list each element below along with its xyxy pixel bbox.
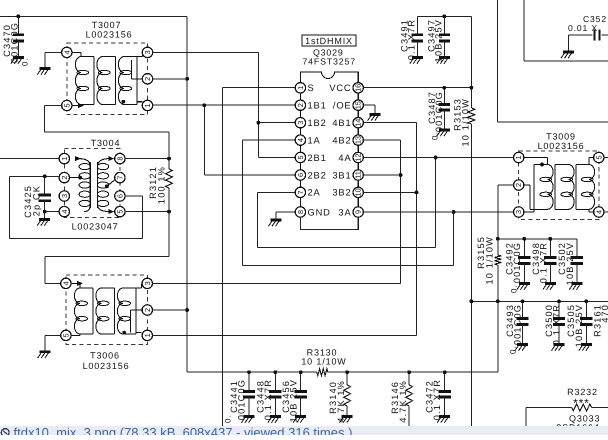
caption link text (1, 425, 352, 440)
wire 3A to T3009 pin3 (363, 211, 514, 213)
svg-text:12: 12 (354, 153, 363, 161)
T3006 pin 4 (61, 278, 71, 288)
svg-text:3: 3 (296, 121, 305, 125)
svg-text:T3004: T3004 (91, 138, 121, 148)
junction dot C3505 (584, 299, 588, 303)
svg-text:3: 3 (143, 50, 152, 54)
junction dot C3472 (443, 370, 447, 374)
T3006 pin 2 (142, 305, 152, 315)
IC Q3029 pin 2 (1B1) (295, 100, 326, 111)
wire C3492 row (498, 238, 577, 240)
svg-text:3A: 3A (338, 207, 351, 217)
ground for T3006 pin5 (38, 352, 51, 358)
label C3492 (505, 242, 523, 293)
wire C3425 bottom to pin4 (45, 211, 60, 213)
svg-text:4A: 4A (338, 153, 351, 163)
T3006 pin4 arrow (77, 281, 83, 286)
svg-text:2p CK: 2p CK (31, 185, 41, 216)
ground for C3492 (517, 284, 530, 290)
junction dot C3448 (274, 370, 278, 374)
T3009 winding 2 (555, 165, 574, 210)
resistor R3155 (494, 255, 501, 265)
IC bottom outline (300, 217, 358, 230)
svg-text:11: 11 (354, 171, 363, 179)
svg-text:4: 4 (62, 50, 71, 54)
T3004 winding right (97, 162, 108, 208)
wire IC pin8 GND (276, 212, 296, 220)
svg-text:0.: 0. (224, 414, 233, 423)
wire 2B2 branch (204, 105, 295, 175)
wire bottom bypass rail y=372 (187, 371, 498, 373)
svg-text:6: 6 (296, 173, 305, 177)
T3004 pin 1 (59, 153, 69, 163)
resistor R3140 (344, 372, 351, 416)
svg-text:5: 5 (115, 210, 124, 214)
svg-text:0.: 0. (510, 284, 519, 293)
T3004 winding left (79, 162, 90, 208)
T3009 pin 1 (514, 152, 524, 162)
svg-text:4.7K 1%: 4.7K 1% (398, 380, 408, 423)
capacitor C3441 (243, 372, 255, 416)
junction dot C3492 (523, 237, 527, 241)
svg-text:001C0G: 001C0G (9, 22, 19, 63)
svg-text:9: 9 (354, 210, 363, 214)
junction dot 1B2 branch (257, 121, 261, 125)
capacitor C3498 (544, 239, 556, 284)
svg-text:4: 4 (61, 281, 70, 285)
ground for C3456 (293, 417, 306, 423)
svg-text:L0023156: L0023156 (538, 141, 585, 151)
svg-text:1: 1 (60, 157, 69, 161)
svg-text:10B 25V: 10B 25V (289, 379, 299, 422)
capacitor C3425 (39, 176, 51, 211)
T3004 pin 6 (115, 191, 125, 201)
junction dot C3425 bottom (43, 210, 47, 214)
label Q3029 (313, 48, 344, 58)
wire T3007 pin2 to rail (152, 78, 187, 80)
T3006 winding 2 (96, 288, 115, 334)
junction dot C3487/VCC (442, 86, 446, 90)
junction dot row x471 (470, 299, 474, 303)
block boundary top-right (524, 0, 608, 61)
svg-text:4.7K 1%: 4.7K 1% (336, 380, 346, 423)
IC Q3029 pin 14 (4B1) (332, 118, 363, 129)
svg-text:3B1: 3B1 (332, 170, 351, 180)
label T3006 (83, 351, 130, 372)
svg-text:470: 470 (600, 304, 608, 323)
T3004 pin 2 (59, 172, 69, 182)
junction dot T3006.2/rail (185, 308, 189, 312)
svg-text:L0023047: L0023047 (72, 222, 119, 232)
svg-text:10B 25V: 10B 25V (565, 242, 575, 285)
svg-text:VCC: VCC (329, 83, 351, 93)
label R3140 (328, 380, 346, 423)
T3007 pin 5 (62, 100, 72, 110)
T3006 winding 1 (74, 288, 93, 334)
svg-text:1: 1 (514, 155, 523, 159)
label C3448 (256, 379, 274, 420)
wire T3007 pin5 feed (45, 106, 169, 159)
capacitor C3524 (horizontal) (569, 30, 608, 41)
wire T3006 pin2 to rail (152, 309, 187, 311)
resistor R3146 (406, 372, 413, 426)
junction dot C3493 (521, 299, 525, 303)
svg-text:3: 3 (514, 210, 523, 214)
junction dot C3497/rail (443, 14, 447, 18)
svg-text:5: 5 (296, 155, 305, 159)
IC Q3029 pin 15 (/OE) (333, 100, 363, 111)
label L0023047 (72, 222, 119, 232)
capacitor C3487 (439, 88, 450, 130)
wire C3425 to ground (44, 212, 46, 220)
label T3007 (86, 20, 133, 40)
svg-text:/OE: /OE (333, 101, 352, 111)
label Q3033 (556, 414, 600, 433)
svg-text:2: 2 (143, 77, 152, 81)
label R3161 (593, 304, 608, 337)
wire T3004 pin5 to R3121 (125, 211, 169, 213)
transformer T3006 dashed box (66, 275, 147, 345)
svg-text:10 1/10W: 10 1/10W (485, 236, 495, 285)
label C3493 (505, 304, 523, 354)
IC Q3029 body (300, 72, 358, 229)
svg-text:001C0G: 001C0G (237, 379, 247, 420)
svg-text:0.: 0. (509, 345, 518, 354)
svg-text:2: 2 (60, 176, 69, 180)
label R3130 (301, 348, 346, 367)
svg-text:T3006: T3006 (90, 351, 120, 361)
svg-text:15: 15 (354, 101, 363, 109)
svg-text:S: S (308, 83, 315, 93)
ground for T3007 pin4 (37, 69, 50, 75)
svg-text:4: 4 (60, 210, 69, 214)
junction dot T3007.2/rail (185, 77, 189, 81)
capacitor C3491 (412, 16, 423, 57)
ground for C3505 (579, 345, 592, 351)
T3006 internal leads (71, 283, 142, 335)
capacitor C3500 (553, 301, 565, 344)
label C3425 (23, 185, 41, 218)
svg-text:2B1: 2B1 (308, 153, 327, 163)
ground for C3502 (569, 284, 582, 290)
svg-text:0.: 0. (431, 131, 440, 140)
ground for C3425 (37, 220, 50, 226)
label 74FST3257 (302, 56, 356, 66)
T3004 pin 7 (115, 172, 125, 182)
wire S select line (223, 88, 296, 426)
ground for C3498 (543, 284, 556, 290)
wire T3007 pin1 to IC 1B1 (152, 104, 295, 106)
wire 3B2 stub (363, 191, 417, 193)
T3004 pin8 arrow (108, 156, 114, 161)
svg-text:ftdx10_mix_3.png (78.33 kB, 60: ftdx10_mix_3.png (78.33 kB, 608x437 - vi… (14, 425, 353, 435)
IC Q3029 pin 7 (2A) (295, 187, 320, 198)
wire VCC rail drop x=471 (470, 16, 472, 426)
T3007 winding 1 (75, 57, 94, 105)
T3004 internal leads (69, 159, 115, 212)
svg-text:100 1%: 100 1% (156, 166, 166, 204)
label C3497 (426, 19, 443, 62)
svg-text:3B2: 3B2 (332, 188, 351, 198)
IC Q3029 pin 4 (1A) (295, 135, 320, 145)
T3007 internal leads (72, 52, 143, 105)
junction dot row/R3155 (496, 237, 500, 241)
junction dot R3121 top (167, 157, 171, 161)
T3009 pin 3 (514, 207, 524, 217)
ground for C3524 (561, 52, 574, 58)
wire R3232 drop (525, 408, 527, 427)
svg-text:10 1/10W: 10 1/10W (461, 98, 471, 147)
junction dot C3470/rail (17, 14, 21, 18)
svg-text:0.: 0. (21, 57, 30, 66)
wire 4B1 branch (363, 123, 417, 193)
svg-text:1: 1 (143, 333, 152, 337)
capacitor C3493 (516, 301, 528, 344)
wire T3006 pin1 to 4B1/3B2 (152, 192, 416, 335)
svg-text:0.1 X7R: 0.1 X7R (552, 304, 562, 345)
capacitor C3448 (269, 372, 281, 416)
T3009 internal leads (524, 158, 594, 213)
label C3491 (399, 19, 416, 60)
svg-text:1B2: 1B2 (308, 118, 327, 128)
capacitor C3470 (13, 16, 24, 57)
wire 2A-4A net (258, 158, 436, 248)
svg-text:2A: 2A (308, 188, 321, 198)
T3004 pin5 arrow (108, 209, 114, 214)
junction dot C3498 (549, 237, 553, 241)
junction dot R3146 (407, 370, 411, 374)
svg-text:74FST3257: 74FST3257 (302, 56, 356, 66)
capacitor C3456 (295, 372, 307, 416)
svg-text:1B1: 1B1 (308, 101, 327, 111)
wire T3009 pin5 out (604, 157, 608, 159)
junction dot R3140 (345, 370, 349, 374)
T3007 winding 2 (97, 57, 116, 105)
svg-text:0.1 X7R: 0.1 X7R (432, 379, 442, 420)
IC Q3029 pin 8 (GND) (295, 207, 331, 218)
IC Q3029 pin 3 (1B2) (295, 118, 326, 129)
svg-text:2: 2 (296, 103, 305, 107)
svg-text:14: 14 (354, 119, 363, 127)
T3004 pin 4 (59, 206, 69, 216)
label R3155 (476, 236, 495, 285)
T3007 pin 3 (142, 47, 152, 57)
svg-text:10B 25V: 10B 25V (574, 304, 584, 347)
wire 4A to T3009 pin1 (363, 157, 514, 159)
junction dot VCC/rail x471 (470, 86, 474, 90)
svg-text:001C0G: 001C0G (512, 242, 522, 283)
wire T3007 pin4 to ground (45, 52, 62, 68)
label C3505 (566, 304, 584, 347)
capacitor C3492 (518, 239, 530, 284)
label R3146 (390, 380, 408, 423)
junction dot 4B1/3B2 (415, 191, 419, 195)
svg-text:8: 8 (115, 157, 124, 161)
T3007 pin 2 (142, 74, 152, 84)
label 1stDHMIX box (302, 35, 356, 46)
T3007 pin 1 (142, 100, 152, 110)
T3009 pin 2 (514, 180, 524, 190)
label C3441 (224, 379, 247, 423)
T3004 pin 5 (115, 206, 125, 216)
label C3500 (544, 304, 562, 345)
svg-text:001C0G: 001C0G (513, 304, 523, 345)
label C3524 (568, 14, 607, 33)
svg-text:10 1/10W: 10 1/10W (301, 357, 346, 367)
wire T3009 pin2 to R3155 (498, 185, 514, 255)
wire vertical bypass rail x=187 (186, 16, 188, 372)
svg-text:1stDHMIX: 1stDHMIX (305, 36, 353, 46)
IC Q3029 pin 1 (S) (295, 83, 314, 93)
T3007 winding 3 (118, 57, 137, 105)
capacitor C3505 (580, 301, 592, 344)
label T3004 (91, 138, 121, 148)
junction dot row x497 (496, 299, 500, 303)
wire T3006 pin3 to 4B2/3B1 (152, 282, 400, 284)
svg-text:1: 1 (143, 103, 152, 107)
wire C3493 row (471, 300, 608, 302)
wire T3009 pin4 out (604, 211, 608, 213)
wire T3004 pin8 to R3121 (125, 158, 169, 160)
wire riser to C3493 row (497, 301, 499, 372)
svg-text:0.1 X7R: 0.1 X7R (407, 19, 417, 60)
T3006 internal junction dot (122, 331, 126, 335)
ground for C3448 (268, 417, 281, 423)
IC Q3029 pin 16 (VCC) (329, 83, 363, 93)
label T3009 (538, 132, 585, 152)
capacitor C3502 (571, 239, 583, 284)
junction dot C3441 (247, 370, 251, 374)
svg-text:5: 5 (594, 155, 603, 159)
wire 4B2 branch (363, 140, 401, 283)
wire /OE to ground (363, 105, 375, 114)
svg-text:7: 7 (115, 176, 124, 180)
junction dot C3456 (299, 370, 303, 374)
svg-text:4B1: 4B1 (332, 118, 351, 128)
wire T3007 pin3 to 1B2/2B1 (152, 52, 295, 157)
T3004 pin 3 (59, 191, 69, 201)
svg-text:4B2: 4B2 (332, 135, 351, 145)
svg-text:4: 4 (296, 138, 305, 142)
label R3121 (148, 166, 166, 204)
ground for C3493 (515, 345, 528, 351)
IC Q3029 pin 12 (4A) (338, 152, 363, 163)
T3004 pin 8 (115, 153, 125, 163)
IC Q3029 pin 10 (3B2) (332, 187, 363, 198)
resistor R3153 (468, 108, 475, 124)
T3009 winding 3 (576, 165, 595, 210)
wire 3B1 stub (363, 174, 401, 176)
transformer T3009 dashed box (519, 151, 599, 219)
svg-text:0.1 X7R: 0.1 X7R (539, 242, 549, 283)
ground for C3491 (410, 58, 423, 64)
label C3456 (281, 379, 299, 422)
junction dot 1B1/2B2 (202, 103, 206, 107)
svg-text:2: 2 (514, 183, 523, 187)
svg-text:L0023156: L0023156 (86, 30, 133, 40)
wire input to T3004 pin1 (0, 158, 59, 160)
T3006 pin 5 (61, 330, 71, 340)
T3006 pin 1 (142, 330, 152, 340)
junction dot 3A branch (452, 210, 456, 214)
T3009 winding 1 (534, 165, 553, 210)
svg-text:1A: 1A (308, 135, 321, 145)
junction dot R3121 bottom (167, 210, 171, 214)
svg-text:2B2: 2B2 (308, 170, 327, 180)
ground for C3497 (437, 58, 450, 64)
svg-text:001C0G: 001C0G (434, 91, 444, 132)
T3009 pin 4 (594, 207, 604, 217)
label C3472 (425, 379, 443, 420)
T3007 pin5 arrow (78, 103, 84, 108)
block boundary wire x=497 (497, 0, 608, 122)
svg-text:***: *** (573, 396, 590, 410)
svg-text:T3009: T3009 (546, 132, 576, 142)
IC Q3029 pin 13 (4B2) (332, 135, 363, 145)
svg-text:8: 8 (296, 210, 305, 214)
T3004 tap dot pin2 (78, 176, 82, 180)
svg-text:5: 5 (62, 103, 71, 107)
label C3502 (557, 242, 575, 285)
ground for C3472 (437, 417, 450, 423)
T3007 pin 4 (62, 47, 72, 57)
label C3487 (427, 91, 444, 140)
ground for C3470 (11, 58, 24, 64)
wire top rail C3491/C3497 (417, 15, 471, 17)
ground for IC pin8 (268, 220, 281, 226)
T3009 internal junction dot (540, 163, 544, 167)
T3007 internal junction dot (122, 100, 126, 104)
svg-text:5: 5 (61, 333, 70, 337)
wire R3121 to T3006 pin4 (45, 212, 169, 284)
junction dot 4B2/3B1 (399, 173, 403, 177)
ground for /OE (368, 115, 381, 121)
resistor R3121 (166, 159, 173, 212)
wire VCC from pin16 (363, 87, 472, 89)
junction dot C3500 (557, 299, 561, 303)
svg-text:3: 3 (60, 194, 69, 198)
svg-text:10: 10 (354, 188, 363, 196)
IC Q3029 pin 9 (3A) (338, 207, 363, 218)
svg-text:7: 7 (296, 190, 305, 194)
svg-text:2: 2 (143, 308, 152, 312)
IC Q3029 pin 6 (2B2) (295, 170, 326, 181)
label R3153 (453, 98, 471, 147)
label C3470 (2, 22, 30, 66)
wire 1A-3A net (243, 140, 454, 265)
ground for R3140 (340, 417, 353, 423)
junction dot C3425 top (43, 174, 47, 178)
T3004 tap dot pin7 (105, 185, 109, 189)
T3006 pin 3 (142, 278, 152, 288)
caption bar (0, 426, 608, 435)
svg-text:GND: GND (308, 207, 331, 217)
transformer T3004 dashed box (64, 148, 120, 217)
svg-text:1: 1 (296, 86, 305, 90)
svg-text:10B 25V: 10B 25V (434, 19, 444, 62)
transformer T3007 dashed box (67, 43, 148, 115)
svg-text:3: 3 (143, 281, 152, 285)
resistor R3130 (317, 369, 328, 376)
T3009 pin 5 (594, 152, 604, 162)
IC Q3029 pin 11 (3B1) (332, 170, 363, 181)
wire T3006 pin5 to ground (45, 335, 61, 352)
label R3232 (567, 387, 598, 410)
T3006 winding 3 (117, 288, 136, 334)
svg-text:4: 4 (594, 210, 603, 214)
svg-text:T3007: T3007 (92, 20, 122, 30)
capacitor C3497 (439, 16, 450, 57)
